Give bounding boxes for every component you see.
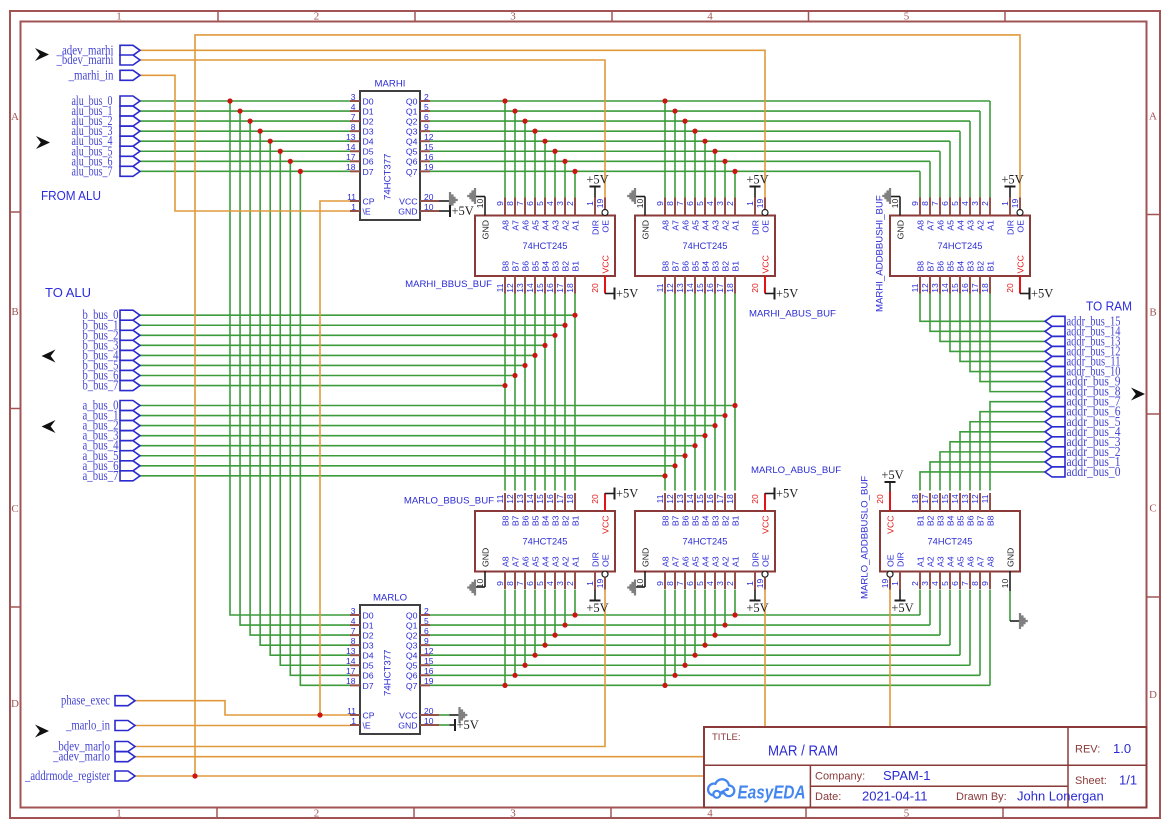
port flag _marlo_in — [65, 718, 135, 733]
svg-text:A8: A8 — [501, 220, 511, 231]
svg-text:12: 12 — [665, 283, 675, 293]
wire phase_exec branch to MARHI CP — [320, 201, 350, 715]
svg-text:CP: CP — [363, 196, 375, 206]
svg-text:GND: GND — [398, 720, 417, 730]
svg-text:C: C — [11, 503, 18, 515]
svg-text:B1: B1 — [916, 515, 926, 526]
svg-text:B1: B1 — [571, 261, 581, 272]
svg-text:TO ALU: TO ALU — [45, 285, 91, 300]
svg-text:8: 8 — [351, 636, 356, 646]
svg-text:11: 11 — [495, 283, 505, 292]
svg-text:A6: A6 — [521, 220, 531, 231]
arrow marker near a_bus — [42, 420, 56, 433]
svg-text:14: 14 — [940, 283, 950, 293]
wire addr_bus_4 from U8 B5 — [960, 432, 1045, 491]
wire addr_bus_8 from U5 B1 — [990, 294, 1045, 392]
label FROM ALU — [41, 188, 101, 203]
svg-text:GND: GND — [481, 548, 491, 567]
wire U5 A7 column — [979, 111, 981, 198]
svg-text:B7: B7 — [511, 261, 521, 272]
port flag addr_bus_6 — [1045, 404, 1121, 419]
wire a_bus column x=685 — [684, 294, 686, 491]
U2 pin names — [363, 610, 418, 730]
port flag addr_bus_12 — [1045, 343, 1121, 358]
U3 GND ground flag — [467, 188, 485, 216]
svg-text:2: 2 — [424, 92, 429, 102]
svg-text:A2: A2 — [926, 556, 936, 567]
svg-text:74HCT377: 74HCT377 — [383, 154, 394, 200]
svg-text:17: 17 — [346, 152, 356, 162]
svg-text:DIR: DIR — [591, 552, 601, 567]
svg-text:addr_bus_0: addr_bus_0 — [1067, 464, 1121, 479]
svg-text:Q0: Q0 — [406, 610, 418, 620]
port flag addr_bus_8 — [1045, 384, 1121, 399]
svg-text:1: 1 — [585, 581, 595, 586]
U4 MARHI_ABUS_BUF 74HCT245 value 74HCT245 — [683, 241, 728, 251]
wire alu_bus_2 drop to MARLO D2 — [250, 121, 350, 635]
svg-text:16: 16 — [930, 494, 940, 504]
svg-text:DIR: DIR — [896, 552, 906, 567]
svg-text:B5: B5 — [531, 261, 541, 272]
title block Company — [815, 768, 930, 783]
svg-text:3: 3 — [555, 581, 565, 586]
svg-text:12: 12 — [665, 494, 675, 504]
wire U6 A6 column — [524, 590, 526, 666]
svg-text:OE: OE — [886, 554, 896, 567]
svg-text:A3: A3 — [711, 556, 721, 567]
U2 name MARLO — [373, 593, 407, 604]
svg-text:20: 20 — [1005, 283, 1015, 293]
svg-text:Q5: Q5 — [406, 661, 418, 671]
port flag a_bus_6 — [83, 458, 141, 473]
svg-text:REV:: REV: — [1075, 744, 1100, 756]
svg-text:C: C — [1149, 503, 1156, 515]
junction dots b_bus — [502, 313, 577, 389]
svg-text:+5V: +5V — [746, 173, 768, 187]
port flag a_bus_0 — [83, 398, 141, 413]
svg-text:20: 20 — [590, 283, 600, 293]
wire alu_bus_2 to MARHI D2 — [140, 120, 350, 122]
wire _addrmode_register branch to U5 OE — [195, 35, 1020, 776]
U4 MARHI_ABUS_BUF 74HCT245 pin names — [641, 220, 771, 274]
svg-text:B3: B3 — [966, 261, 976, 272]
wire U6 A3 column — [554, 590, 556, 636]
wire addr_bus_13 from U5 B6 — [940, 294, 1045, 342]
svg-text:15: 15 — [940, 494, 950, 504]
port flag b_bus_3 — [83, 337, 141, 352]
svg-text:MARLO_ABUS_BUF: MARLO_ABUS_BUF — [751, 465, 841, 476]
svg-text:5: 5 — [904, 808, 910, 820]
port flag addr_bus_11 — [1045, 353, 1121, 368]
port flag a_bus_3 — [83, 428, 141, 443]
svg-text:9: 9 — [910, 201, 920, 206]
svg-text:Q6: Q6 — [406, 157, 418, 167]
svg-text:+5V: +5V — [452, 204, 474, 218]
svg-text:14: 14 — [525, 283, 535, 293]
svg-text:17: 17 — [715, 283, 725, 293]
svg-text:D7: D7 — [363, 681, 374, 691]
svg-text:A1: A1 — [571, 220, 581, 231]
wire MARHI Q2 row — [430, 120, 970, 122]
wire alu_bus_3 drop to MARLO D3 — [260, 131, 350, 645]
svg-text:1: 1 — [351, 716, 356, 726]
ruler letters right — [1149, 111, 1157, 702]
svg-text:B7: B7 — [926, 261, 936, 272]
wire U5 A1 column — [919, 171, 921, 198]
svg-text:\E: \E — [363, 206, 371, 216]
svg-text:B5: B5 — [956, 515, 966, 526]
svg-text:B8: B8 — [501, 515, 511, 526]
svg-text:+5V: +5V — [457, 718, 479, 732]
svg-text:13: 13 — [515, 283, 525, 293]
U8 OE bubble — [887, 571, 893, 577]
svg-text:3: 3 — [715, 201, 725, 206]
wire a_bus_7 — [140, 475, 665, 477]
wire b_bus column x=535 — [534, 294, 536, 491]
svg-text:_addrmode_register: _addrmode_register — [24, 768, 110, 783]
U4 OE bubble — [762, 210, 768, 216]
svg-text:10: 10 — [424, 202, 434, 212]
svg-text:19: 19 — [1010, 199, 1020, 209]
wire U3 A4 column — [544, 141, 546, 198]
wire U3 A7 column — [514, 111, 516, 198]
svg-text:11: 11 — [655, 283, 665, 292]
svg-text:John Lonergan: John Lonergan — [1017, 789, 1104, 804]
wire MARLO Q2 row — [430, 634, 940, 636]
junction dots alu bus — [227, 98, 303, 174]
U4 MARHI_ABUS_BUF 74HCT245 pin numbers — [635, 199, 765, 293]
svg-text:5: 5 — [695, 581, 705, 586]
svg-text:B8: B8 — [661, 515, 671, 526]
svg-text:17: 17 — [715, 494, 725, 504]
svg-text:16: 16 — [424, 152, 434, 162]
svg-text:A5: A5 — [531, 556, 541, 567]
svg-text:MARLO_ADDBBUSLO_BUF: MARLO_ADDBBUSLO_BUF — [860, 476, 871, 599]
svg-text:DIR: DIR — [1006, 220, 1016, 235]
svg-text:5: 5 — [950, 201, 960, 206]
svg-text:VCC: VCC — [761, 255, 771, 273]
U5 MARHI_ADDBBUSHI_BUF 74HCT245 instance label — [875, 195, 886, 312]
svg-text:10: 10 — [424, 716, 434, 726]
svg-text:A4: A4 — [956, 220, 966, 231]
svg-text:6: 6 — [685, 581, 695, 586]
svg-text:MARHI_BBUS_BUF: MARHI_BBUS_BUF — [405, 279, 492, 290]
wire b_bus column x=575 — [574, 294, 576, 491]
svg-text:A2: A2 — [561, 556, 571, 567]
svg-text:+5V: +5V — [746, 601, 768, 615]
svg-text:3: 3 — [555, 201, 565, 206]
svg-text:10: 10 — [635, 199, 645, 209]
IC U4 MARHI_ABUS_BUF 74HCT245 body — [635, 216, 775, 277]
svg-text:14: 14 — [525, 494, 535, 504]
U4 GND ground flag — [627, 188, 645, 216]
svg-text:B5: B5 — [691, 515, 701, 526]
svg-text:B1: B1 — [731, 261, 741, 272]
svg-text:D4: D4 — [363, 137, 374, 147]
svg-text:15: 15 — [535, 494, 545, 504]
svg-text:8: 8 — [665, 581, 675, 586]
port flag a_bus_1 — [83, 408, 141, 423]
wire U8 A5 column — [959, 590, 961, 656]
wire a_bus column x=725 — [724, 294, 726, 491]
U4 MARHI_ABUS_BUF 74HCT245 pin stubs — [665, 198, 765, 294]
svg-text:12: 12 — [970, 494, 980, 504]
svg-text:A8: A8 — [661, 556, 671, 567]
svg-text:B3: B3 — [551, 261, 561, 272]
svg-text:Q6: Q6 — [406, 671, 418, 681]
svg-text:7: 7 — [675, 201, 685, 206]
svg-text:A1: A1 — [731, 220, 741, 231]
wire b_bus column x=505 — [504, 294, 506, 491]
svg-text:15: 15 — [695, 494, 705, 504]
svg-text:12: 12 — [424, 646, 434, 656]
wire a_bus_1 — [140, 415, 725, 417]
svg-text:18: 18 — [980, 283, 990, 293]
svg-text:10: 10 — [1000, 579, 1010, 589]
svg-text:+5V: +5V — [586, 601, 608, 615]
wire U8 A7 column — [979, 590, 981, 676]
wire U3 A2 column — [564, 161, 566, 198]
svg-text:Q3: Q3 — [406, 127, 418, 137]
svg-text:B1: B1 — [986, 261, 996, 272]
port flag alu_bus_6 — [72, 153, 141, 168]
svg-text:+5V: +5V — [881, 468, 903, 482]
wire alu_bus_4 to MARHI D4 — [140, 140, 350, 142]
arrow marker near addr_bus_8 — [1131, 388, 1145, 401]
svg-text:A: A — [11, 111, 19, 123]
svg-text:7: 7 — [930, 201, 940, 206]
svg-text:9: 9 — [655, 581, 665, 586]
port flag alu_bus_3 — [72, 123, 141, 138]
wire U4 A7 column — [674, 111, 676, 198]
title block frame — [704, 727, 1147, 808]
port flag addr_bus_2 — [1045, 444, 1121, 459]
port flag b_bus_1 — [83, 317, 141, 332]
wire _bdev_marhi to U3 OE — [140, 60, 605, 198]
svg-text:B8: B8 — [501, 261, 511, 272]
wire alu_bus_1 drop to MARLO D1 — [240, 111, 350, 625]
svg-text:11: 11 — [347, 192, 356, 202]
U1 pin stubs — [350, 101, 439, 211]
svg-text:18: 18 — [346, 162, 356, 172]
wire MARHI Q3 row — [430, 130, 960, 132]
U6 OE bubble — [602, 571, 608, 577]
IC U6 MARLO_BBUS_BUF 74HCT245 body — [475, 511, 615, 572]
port flag alu_bus_4 — [72, 133, 141, 148]
svg-text:12: 12 — [505, 494, 515, 504]
svg-text:9: 9 — [495, 201, 505, 206]
wire addr_bus_14 from U5 B7 — [930, 294, 1045, 332]
svg-text:5: 5 — [424, 102, 429, 112]
svg-text:VCC: VCC — [601, 255, 611, 273]
svg-text:A: A — [1149, 111, 1157, 123]
U3 MARHI_BBUS_BUF 74HCT245 value 74HCT245 — [523, 241, 568, 251]
U3 OE bubble — [602, 210, 608, 216]
svg-text:D6: D6 — [363, 157, 374, 167]
svg-text:74HCT245: 74HCT245 — [928, 537, 973, 547]
svg-text:3: 3 — [351, 92, 356, 102]
U1 GND pin10 +5V flag — [439, 204, 474, 218]
svg-text:74HCT245: 74HCT245 — [683, 537, 728, 547]
svg-text:A7: A7 — [511, 220, 521, 231]
arrow marker near _adev_marhi — [35, 48, 49, 61]
svg-text:11: 11 — [347, 706, 356, 716]
wire b_bus_4 — [140, 354, 535, 356]
svg-text:VCC: VCC — [761, 516, 771, 534]
svg-text:A8: A8 — [986, 556, 996, 567]
port flag b_bus_0 — [83, 307, 141, 322]
U4 VCC +5V flag — [765, 276, 798, 300]
wire addr_bus_10 from U5 B3 — [970, 294, 1045, 372]
junction dots MARHI Q to U4 — [662, 98, 737, 174]
IC U7 MARLO_ABUS_BUF 74HCT245 body — [635, 511, 775, 572]
svg-text:1: 1 — [585, 201, 595, 206]
ruler numbers top — [116, 11, 910, 23]
U8 VCC +5V flag — [881, 468, 903, 511]
U6 DIR +5V flag — [586, 590, 608, 616]
svg-text:OE: OE — [1016, 220, 1026, 233]
U2 value 74HCT377 — [383, 650, 394, 696]
wire addr_bus_3 from U8 B4 — [950, 442, 1045, 491]
title block Sheet — [1075, 773, 1137, 788]
svg-text:8: 8 — [920, 201, 930, 206]
U7 MARLO_ABUS_BUF 74HCT245 pin stubs — [665, 493, 765, 590]
wire a_bus column x=705 — [704, 294, 706, 491]
wire b_bus column x=515 — [514, 294, 516, 491]
svg-text:D: D — [1149, 689, 1157, 701]
wire b_bus_0 — [140, 314, 575, 316]
svg-text:2: 2 — [725, 201, 735, 206]
svg-text:A8: A8 — [916, 220, 926, 231]
wire addr_bus_6 from U8 B7 — [980, 412, 1045, 491]
svg-text:A8: A8 — [661, 220, 671, 231]
svg-text:18: 18 — [565, 494, 575, 504]
wire U5 A2 column — [929, 161, 931, 198]
U4 DIR +5V flag — [746, 173, 768, 198]
port flag a_bus_5 — [83, 448, 141, 463]
svg-text:20: 20 — [590, 494, 600, 504]
svg-text:MAR / RAM: MAR / RAM — [768, 744, 838, 760]
svg-text:1.0: 1.0 — [1113, 741, 1131, 756]
svg-text:MARHI_ADDBBUSHI_BUF: MARHI_ADDBBUSHI_BUF — [875, 195, 886, 312]
svg-text:Company:: Company: — [815, 771, 865, 783]
svg-text:9: 9 — [424, 636, 429, 646]
svg-text:6: 6 — [950, 581, 960, 586]
svg-text:Drawn By:: Drawn By: — [956, 791, 1007, 803]
U7 MARLO_ABUS_BUF 74HCT245 value 74HCT245 — [683, 537, 728, 547]
svg-text:+5V: +5V — [616, 286, 638, 300]
U3 MARHI_BBUS_BUF 74HCT245 instance label — [405, 279, 492, 290]
U1 value 74HCT377 — [383, 154, 394, 200]
wire _adev_marlo to U7 OE — [135, 590, 765, 757]
U5 OE bubble — [1017, 210, 1023, 216]
svg-text:74HCT245: 74HCT245 — [938, 241, 983, 251]
U8 MARLO_ADDBBUSLO_BUF 74HCT245 value 74HCT245 — [928, 537, 973, 547]
svg-text:5: 5 — [424, 616, 429, 626]
svg-text:A5: A5 — [956, 556, 966, 567]
svg-text:b_bus_7: b_bus_7 — [83, 378, 119, 393]
svg-text:DIR: DIR — [751, 220, 761, 235]
IC U3 MARHI_BBUS_BUF 74HCT245 body — [475, 216, 615, 277]
svg-text:B4: B4 — [541, 261, 551, 272]
wire U7 A1 column — [734, 590, 736, 616]
wire U5 A4 column — [949, 141, 951, 198]
svg-text:D1: D1 — [363, 106, 374, 116]
svg-text:A5: A5 — [691, 220, 701, 231]
svg-text:EasyEDA: EasyEDA — [738, 782, 806, 803]
U1 pin numbers — [346, 92, 434, 212]
svg-text:B4: B4 — [946, 515, 956, 526]
svg-text:CP: CP — [363, 710, 375, 720]
svg-text:5: 5 — [535, 201, 545, 206]
svg-text:4: 4 — [545, 581, 555, 586]
svg-text:A2: A2 — [721, 220, 731, 231]
svg-text:Q3: Q3 — [406, 641, 418, 651]
svg-text:9: 9 — [980, 581, 990, 586]
svg-text:B6: B6 — [681, 515, 691, 526]
svg-text:13: 13 — [346, 646, 356, 656]
port flag addr_bus_15 — [1045, 313, 1121, 328]
svg-text:20: 20 — [424, 706, 434, 716]
svg-text:1: 1 — [745, 201, 755, 206]
svg-text:D0: D0 — [363, 610, 374, 620]
wire a_bus column x=675 — [674, 294, 676, 491]
svg-text:13: 13 — [930, 283, 940, 293]
svg-text:OE: OE — [601, 220, 611, 233]
svg-text:3: 3 — [510, 808, 516, 820]
U1 VCC pin20 ground flag — [439, 192, 458, 208]
wire alu_bus_0 drop to MARLO D0 — [230, 101, 350, 615]
wire U8 A8 column — [989, 590, 991, 686]
label TO ALU — [45, 285, 91, 300]
wire a_bus_3 — [140, 435, 705, 437]
svg-text:A4: A4 — [541, 220, 551, 231]
wire b_bus_3 — [140, 344, 545, 346]
svg-text:8: 8 — [351, 122, 356, 132]
U6 MARLO_BBUS_BUF 74HCT245 value 74HCT245 — [523, 537, 568, 547]
svg-text:3: 3 — [715, 581, 725, 586]
wire U6 A7 column — [514, 590, 516, 676]
port flag alu_bus_0 — [72, 93, 141, 108]
svg-text:2: 2 — [725, 581, 735, 586]
wire addr_bus_7 from U8 B8 — [990, 402, 1045, 491]
svg-text:18: 18 — [346, 676, 356, 686]
junction dot phase_exec at MARHI CP branch — [317, 712, 322, 717]
svg-text:B8: B8 — [916, 261, 926, 272]
svg-text:17: 17 — [920, 494, 930, 504]
svg-text:FROM ALU: FROM ALU — [41, 188, 101, 203]
ruler numbers bottom — [116, 808, 910, 820]
ruler ticks left — [10, 212, 21, 607]
svg-text:Q5: Q5 — [406, 147, 418, 157]
svg-text:20: 20 — [875, 494, 885, 504]
svg-text:DIR: DIR — [751, 552, 761, 567]
wire U5 A8 column — [989, 101, 991, 198]
svg-text:B7: B7 — [976, 515, 986, 526]
svg-text:19: 19 — [595, 579, 605, 589]
svg-text:B5: B5 — [531, 515, 541, 526]
svg-text:8: 8 — [505, 581, 515, 586]
svg-text:+5V: +5V — [586, 173, 608, 187]
port flag addr_bus_7 — [1045, 394, 1121, 409]
svg-text:1: 1 — [116, 11, 122, 23]
svg-text:GND: GND — [641, 220, 651, 239]
svg-text:B2: B2 — [926, 515, 936, 526]
svg-text:B3: B3 — [711, 261, 721, 272]
wire b_bus column x=565 — [564, 294, 566, 491]
svg-text:3: 3 — [970, 201, 980, 206]
svg-text:_bdev_marhi: _bdev_marhi — [56, 52, 114, 67]
